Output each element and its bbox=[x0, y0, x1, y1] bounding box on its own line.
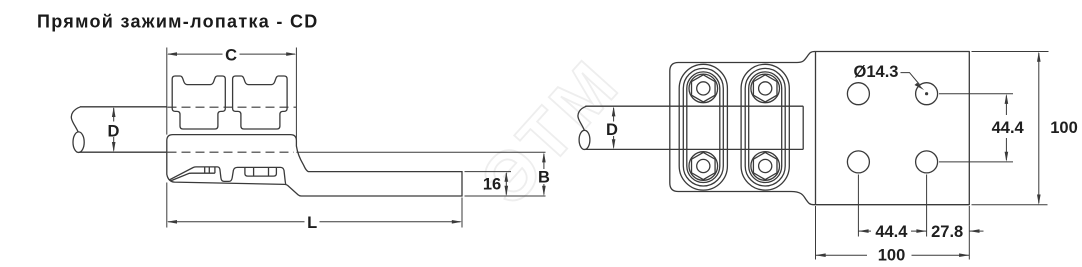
svg-text:44.4: 44.4 bbox=[875, 223, 908, 241]
svg-text:Прямой зажим-лопатка - CD: Прямой зажим-лопатка - CD bbox=[37, 12, 319, 32]
svg-text:27.8: 27.8 bbox=[931, 223, 963, 241]
svg-text:B: B bbox=[538, 168, 550, 186]
svg-text:100: 100 bbox=[1050, 119, 1078, 137]
svg-text:100: 100 bbox=[878, 247, 906, 265]
svg-text:44.4: 44.4 bbox=[992, 119, 1025, 137]
svg-text:Ø14.3: Ø14.3 bbox=[854, 63, 899, 81]
svg-text:C: C bbox=[225, 47, 237, 65]
svg-text:L: L bbox=[307, 214, 317, 232]
svg-text:16: 16 bbox=[483, 175, 501, 193]
svg-text:D: D bbox=[107, 122, 119, 140]
svg-text:D: D bbox=[606, 121, 618, 139]
